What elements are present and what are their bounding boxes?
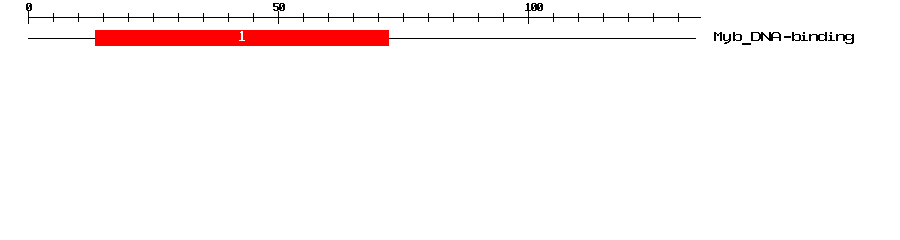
ruler minor tick 30	[178, 13, 179, 22]
ruler minor tick 55	[303, 13, 304, 22]
ruler minor tick 130	[678, 13, 679, 22]
ruler minor tick 10	[78, 13, 79, 22]
ruler minor tick 5	[53, 13, 54, 22]
ruler minor tick 60	[328, 13, 329, 22]
ruler minor tick 75	[403, 13, 404, 22]
domain name Myb_DNA-binding	[714, 32, 854, 45]
ruler baseline	[28, 17, 701, 18]
ruler minor tick 20	[128, 13, 129, 22]
ruler minor tick 85	[453, 13, 454, 22]
ruler minor tick 15	[103, 13, 104, 22]
sequence line	[28, 38, 696, 39]
ruler major tick 100	[528, 11, 529, 24]
ruler label 0	[26, 3, 32, 11]
ruler minor tick 80	[428, 13, 429, 22]
ruler minor tick 110	[578, 13, 579, 22]
ruler minor tick 125	[653, 13, 654, 22]
ruler minor tick 95	[503, 13, 504, 22]
ruler minor tick 40	[228, 13, 229, 22]
ruler minor tick 45	[253, 13, 254, 22]
background	[0, 0, 900, 58]
ruler major tick 50	[278, 11, 279, 24]
ruler minor tick 35	[203, 13, 204, 22]
domain box Myb_DNA-binding (1)	[95, 30, 389, 46]
ruler minor tick 25	[153, 13, 154, 22]
ruler minor tick 105	[553, 13, 554, 22]
ruler minor tick 65	[353, 13, 354, 22]
ruler minor tick 115	[603, 13, 604, 22]
domain box label 1	[239, 31, 245, 41]
ruler label 100	[525, 3, 543, 11]
ruler minor tick 120	[628, 13, 629, 22]
ruler label 50	[273, 3, 285, 11]
ruler minor tick 70	[378, 13, 379, 22]
ruler major tick 0	[28, 11, 29, 24]
ruler minor tick 90	[478, 13, 479, 22]
